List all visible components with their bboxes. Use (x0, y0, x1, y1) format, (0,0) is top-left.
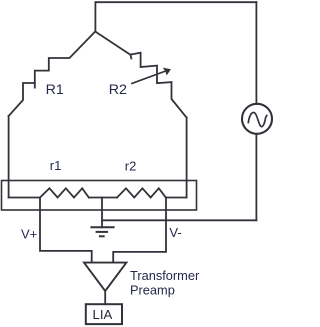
wire below source down (255, 134, 257, 220)
LIA box (86, 304, 122, 324)
svg-text:Transformer: Transformer (130, 268, 200, 283)
wire right vertical down to source (255, 2, 257, 104)
wire baseline middle (89, 197, 117, 199)
ground symbol bar 1 (91, 226, 113, 228)
wire V- drop to preamp (113, 198, 166, 263)
wire bridge left vertical (8, 116, 10, 198)
wire preamp output (104, 291, 106, 304)
wire bridge right vertical (186, 118, 188, 198)
svg-text:LIA: LIA (93, 307, 113, 322)
wire ground stem (101, 198, 103, 228)
svg-text:r2: r2 (125, 159, 137, 174)
arrow of variable resistor R2 (132, 71, 166, 84)
arrowhead of variable resistor R2 (163, 68, 171, 76)
svg-text:V+: V+ (21, 227, 37, 242)
resistor R2 staircase (bridge right arm, variable) (95, 32, 186, 118)
AC source sine symbol (248, 112, 266, 126)
wire apex vertical stub (94, 2, 96, 31)
svg-text:R1: R1 (46, 82, 64, 98)
wire baseline left stub (9, 197, 40, 199)
resistor r1 zigzag (40, 188, 89, 197)
wire baseline right stub (166, 197, 187, 199)
sensor box around r1 r2 (2, 181, 197, 211)
resistor r2 zigzag (117, 188, 166, 197)
svg-text:V-: V- (169, 225, 181, 240)
ground symbol bar 2 (97, 231, 108, 233)
AC source V1 circle (242, 104, 272, 134)
resistor R1 tick (34, 83, 36, 88)
wire AC return to ground node (102, 219, 256, 221)
wire top horizontal from apex to right side (95, 1, 256, 3)
svg-text:R2: R2 (109, 82, 127, 98)
svg-text:Preamp: Preamp (130, 282, 175, 297)
resistor R1 staircase (bridge left arm) (9, 32, 96, 117)
svg-text:r1: r1 (50, 158, 62, 173)
ground symbol bar 3 (100, 235, 104, 237)
wire V+ drop to preamp (40, 198, 92, 263)
resistor R2 tick (130, 55, 133, 59)
op-amp preamp triangle U1 (84, 263, 126, 291)
